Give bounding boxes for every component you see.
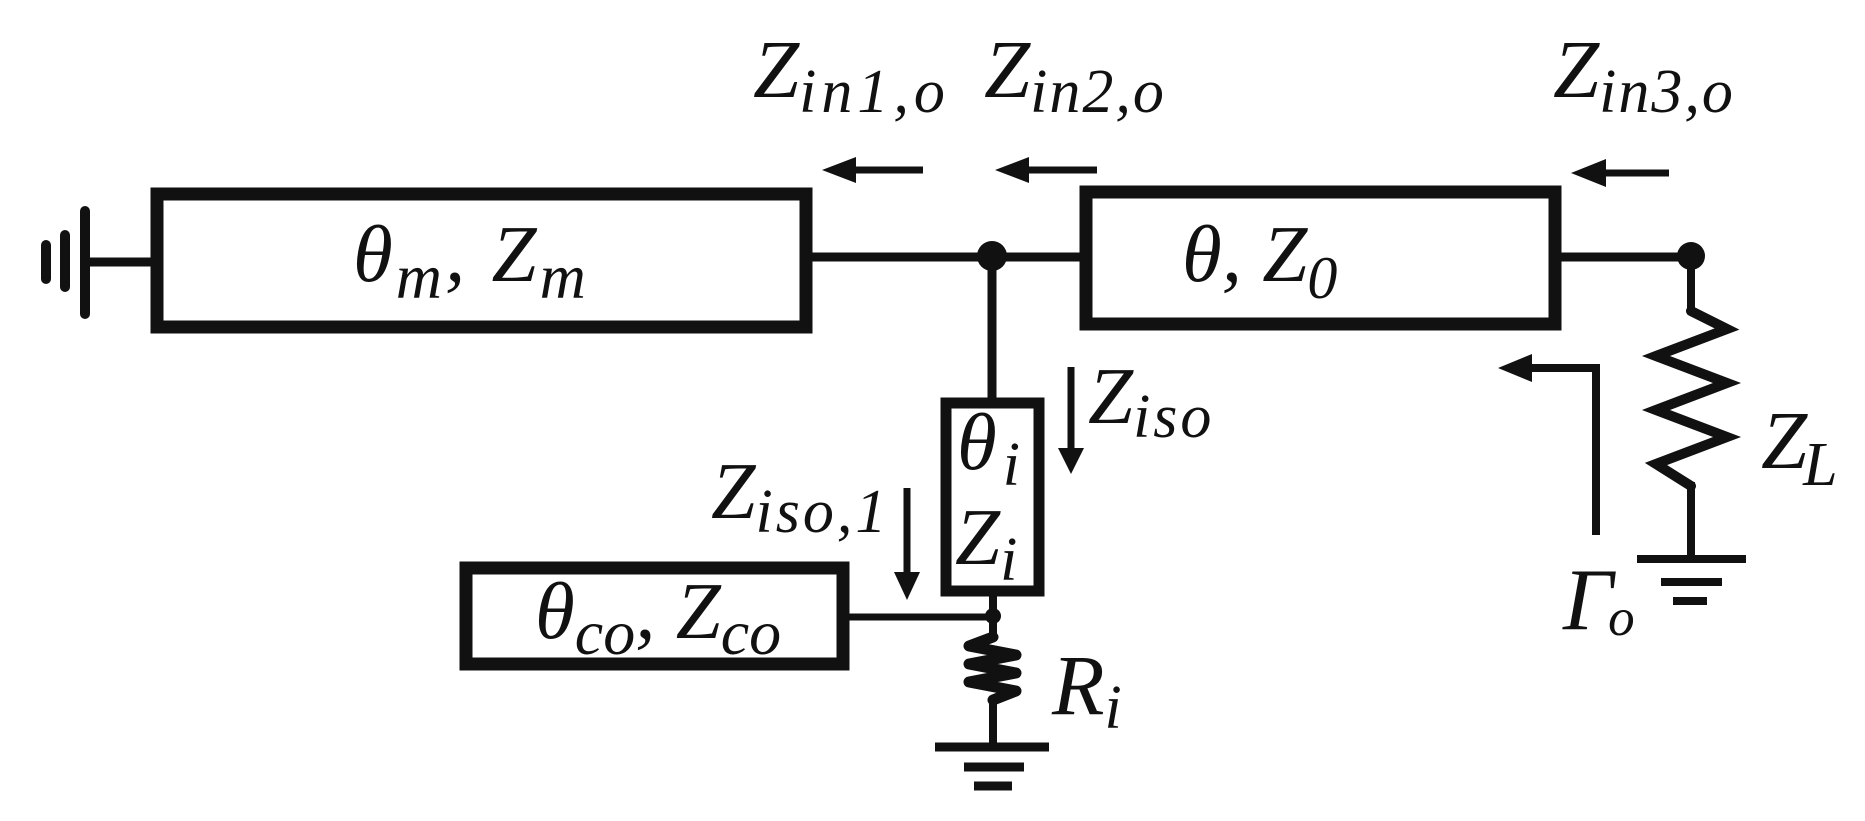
wire Ri to ground G3: [989, 703, 997, 747]
transmission line TL3 (theta_i / Z_i, vertical): [946, 403, 1039, 591]
arrow Zin2: [1023, 167, 1097, 174]
wire TL3 to node C to Ri: [989, 591, 997, 640]
wire node A down to TL3: [988, 257, 997, 400]
wire ZL to ground G2: [1687, 482, 1695, 559]
ground G2 (under ZL): [1637, 559, 1746, 601]
arrow Zin3: [1601, 170, 1669, 177]
node A (junction dot): [977, 241, 1007, 271]
arrow Ziso (down): [1068, 367, 1075, 452]
node B (junction dot): [1677, 242, 1705, 270]
resistor ZL (zigzag): [1656, 311, 1727, 486]
wire TL1 to node A: [806, 253, 1086, 262]
wire ground to TL1: [85, 258, 155, 267]
reflection arrow Gamma_o (bent): [1516, 368, 1596, 535]
transmission line TL4 (theta_co, Z_co): [466, 568, 843, 664]
resistor Ri (tight zigzag): [969, 637, 1016, 700]
wire TL4 to node C: [843, 614, 993, 621]
arrow Ziso1 (down): [904, 488, 911, 572]
wire TL2 to node B: [1555, 253, 1691, 262]
ground G3 (under Ri): [935, 747, 1049, 786]
ground G1 (left, rotated): [46, 211, 85, 314]
transmission line TL2 (theta, Z_0): [1086, 192, 1555, 324]
node C (below TL3): [985, 608, 1001, 624]
transmission line TL1 (theta_m, Z_m): [157, 194, 806, 327]
arrow Zin1: [850, 167, 923, 174]
wire node B down to ZL: [1687, 256, 1695, 312]
